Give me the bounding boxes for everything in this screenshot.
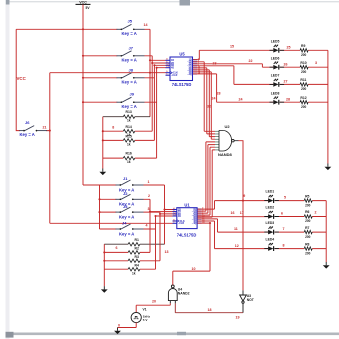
wire key J8 to U5 D2 and R15 [103,65,166,140]
wire net 11 U1 3Q to LED3 [198,219,327,232]
wire U4 output to U1 clock pin [173,223,210,285]
wire net 12 U1 4Q to LED4 [198,221,327,249]
wire net 1 key J1 to U1 D0 and R1 [144,185,173,244]
switch J7 [117,51,145,56]
svg-text:23: 23 [213,61,217,65]
wire R13 row [103,116,150,118]
resistor R16 1k [123,152,135,164]
svg-text:200: 200 [305,219,311,223]
svg-text:J6: J6 [25,120,30,125]
svg-text:3: 3 [315,61,317,65]
switch J8 [117,73,145,78]
svg-text:10: 10 [192,267,196,271]
svg-text:200: 200 [301,105,307,109]
wire U1 ~3Q to U2 input [198,147,216,215]
svg-text:4: 4 [146,224,148,228]
wire top LED cathode rail to ground [327,50,329,163]
svg-text:J1: J1 [123,176,128,181]
wire net 3 key J3 to U1 D2 and R3 [104,212,172,261]
resistor R15 1k [123,134,135,146]
svg-text:4D: 4D [171,67,174,70]
svg-text:17: 17 [240,211,244,215]
wire junctions [49,28,244,262]
svg-text:24: 24 [212,97,216,101]
svg-text:R11: R11 [300,78,306,82]
svg-text:14: 14 [144,23,148,27]
inverter U3 NOT gate [240,290,247,312]
resistor R5 200 [304,194,312,207]
switch J4 [116,224,144,229]
svg-text:LED6: LED6 [271,57,280,61]
svg-text:200: 200 [301,70,307,74]
svg-text:32: 32 [207,105,211,109]
resistor R10 200 [300,61,308,74]
switch J3 [116,207,144,212]
resistor R8 200 [304,242,312,255]
LED LED8 [270,92,285,105]
svg-text:18: 18 [208,308,212,312]
svg-text:NAND8: NAND8 [218,152,233,157]
wire V1 negative to ground [118,323,137,328]
svg-text:LED5: LED5 [271,40,280,44]
svg-text:LED8: LED8 [271,92,280,96]
switch J2 [116,194,144,199]
svg-text:J2: J2 [123,191,128,196]
wire pulldown ground rail top bank [102,117,104,169]
svg-text:12: 12 [235,244,239,248]
wire net 9 U2 output down to U3 NOT input [239,141,244,291]
IC U5 74LS175D quad D flip-flop [166,57,198,81]
svg-text:U5: U5 [179,52,185,57]
svg-text:Key = A: Key = A [119,214,134,219]
svg-text:15: 15 [230,45,234,49]
svg-text:2: 2 [315,211,317,215]
switch J1 [116,180,144,185]
svg-text:U2: U2 [224,124,230,129]
power VCC 5V supply symbol [76,1,91,11]
wire key J7 to U5 D1 and R14 [103,56,166,131]
svg-text:J4: J4 [122,221,127,226]
svg-text:V1: V1 [143,307,147,311]
svg-text:R2: R2 [135,247,139,251]
svg-text:LED2: LED2 [266,206,275,210]
svg-text:J5: J5 [128,19,133,24]
svg-text:19: 19 [236,316,240,320]
wire key J9 to U5 D3 and R16 [103,68,166,158]
svg-text:~4Q: ~4Q [192,222,197,225]
wire pulldown ground rail bottom bank [103,244,105,286]
svg-text:R8: R8 [305,242,309,246]
wire net 4 key J4 to U1 D3 and R4 [104,216,172,269]
svg-text:25: 25 [287,45,291,49]
wire U5 ~4Q to U2 input [193,72,215,139]
svg-text:R3: R3 [135,255,139,259]
wire U5 ~3Q to U2 input [193,70,215,137]
svg-text:VCC: VCC [17,76,27,81]
resistor R4 1k [128,263,140,275]
svg-text:Key = A: Key = A [119,231,134,236]
wire net 24 U5 4Q to LED8 [193,74,328,102]
wire net 23 U5 3Q to LED7 [193,66,328,85]
wire net 20 V1 to U4 input [136,303,170,313]
svg-text:16: 16 [231,211,235,215]
svg-text:R5: R5 [305,194,309,198]
wire net 18 U3 output to U4 input [175,303,243,312]
ground V1 [114,328,121,335]
svg-text:7: 7 [283,227,285,231]
wire U1 ~4Q to U2 input [198,150,216,217]
ground bottom LED rail [323,262,330,269]
svg-text:J8: J8 [129,68,134,73]
svg-text:R9: R9 [301,44,305,48]
nand gate U4 NAND2 [168,285,177,303]
svg-text:J7: J7 [129,46,134,51]
nand gate U2 NAND8 [215,130,239,151]
svg-text:~CLR: ~CLR [178,222,185,225]
wire VCC extension feeding keys J1-J4 [83,185,116,229]
svg-text:LED4: LED4 [266,238,275,242]
IC U1 74LS175D quad D flip-flop [173,208,202,229]
resistor R1 1k [128,238,140,246]
svg-text:1k: 1k [127,160,131,164]
svg-text:R14: R14 [126,125,132,129]
resistor R2 1k [128,247,140,254]
wire net 22 U5 2Q to LED6 [193,64,328,67]
svg-text:9: 9 [243,194,245,198]
svg-text:U1: U1 [184,202,190,207]
svg-text:2: 2 [148,194,150,198]
svg-text:6: 6 [281,212,283,216]
svg-text:21: 21 [43,126,47,130]
svg-text:J3: J3 [123,204,128,209]
switch J6 [19,126,47,131]
svg-text:Key = A: Key = A [122,58,137,63]
node VCC label [17,76,27,81]
svg-text:5: 5 [284,196,286,200]
ground top LED rail [325,164,332,171]
net number labels [43,23,318,327]
resistor R3 1k [128,255,140,262]
resistor R11 200 [300,78,308,91]
svg-text:200: 200 [301,53,307,57]
resistor R7 200 [304,226,312,239]
wire U5 ~1Q to U2 input [193,62,215,132]
resistor R12 200 [300,96,308,109]
LED LED7 [270,74,285,87]
svg-text:LED7: LED7 [271,74,280,78]
LED LED5 [270,40,285,53]
svg-text:NAND2: NAND2 [178,291,190,295]
svg-text:J9: J9 [130,92,135,97]
resistor R9 200 [300,44,308,57]
svg-text:~CLR: ~CLR [171,74,178,77]
svg-text:1: 1 [148,180,150,184]
LED LED1 [264,190,279,203]
svg-text:Key = A: Key = A [122,104,137,109]
svg-text:R15: R15 [126,134,132,138]
switch J5 [117,24,145,29]
svg-text:3: 3 [148,207,150,211]
svg-text:200: 200 [305,235,311,239]
svg-text:24: 24 [239,97,243,101]
wire net 15 U5 1Q to LED5 [193,50,328,59]
svg-text:0: 0 [118,324,120,328]
svg-text:Key = A: Key = A [122,31,137,36]
wire net 17 U1 1Q to LED1 [198,201,327,210]
svg-text:R7: R7 [305,226,309,230]
svg-text:1k: 1k [127,119,131,123]
wire VCC left drop to key J6 [16,29,20,130]
svg-text:13: 13 [165,250,169,254]
svg-text:R6: R6 [305,210,309,214]
svg-text:4D: 4D [178,215,181,218]
svg-text:VCC: VCC [79,1,87,5]
svg-text:R4: R4 [135,263,139,267]
svg-text:74LS175D: 74LS175D [177,232,197,237]
resistor R6 200 [304,210,312,223]
svg-text:8: 8 [283,244,285,248]
resistor R14 1k [123,125,135,137]
svg-text:R16: R16 [126,152,132,156]
svg-text:11: 11 [234,227,238,231]
wire net 2 key J2 to U1 D1 and R2 [104,199,172,252]
svg-text:22: 22 [249,59,253,63]
voltage source V1 1kHz 5V clock [131,312,141,322]
wire R1 row [104,243,164,245]
svg-text:R13: R13 [126,110,132,114]
svg-text:1k: 1k [132,272,136,276]
svg-text:R12: R12 [300,96,306,100]
wire U1 ~1Q to U2 input [198,142,216,211]
svg-text:27: 27 [284,80,288,84]
svg-text:26: 26 [284,62,288,66]
svg-text:LED3: LED3 [266,221,275,225]
svg-text:Key = A: Key = A [122,80,137,85]
LED LED6 [270,57,285,70]
svg-text:LED1: LED1 [266,190,275,194]
svg-text:6: 6 [116,246,118,250]
wire VCC rail from supply down with branches to keys J5 J7 J8 J9 [16,4,117,185]
wire net 14 key J5 to U5 D0 and R13 [145,29,166,116]
wire U5 ~2Q to U2 input [193,68,215,134]
svg-text:28: 28 [286,97,290,101]
ground top pulldown bank [99,169,106,176]
svg-text:1k: 1k [127,142,131,146]
svg-text:200: 200 [305,251,311,255]
svg-text:200: 200 [301,87,307,91]
svg-text:NOT: NOT [247,298,255,302]
svg-text:Key = A: Key = A [20,132,35,137]
svg-text:28: 28 [217,92,221,96]
wire U1 ~2Q to U2 input [198,145,216,214]
svg-text:~4Q: ~4Q [187,73,192,76]
svg-text:R10: R10 [300,61,306,65]
switch J9 [117,97,145,102]
svg-text:20: 20 [152,300,156,304]
svg-text:200: 200 [305,203,311,207]
LED LED4 [264,238,279,251]
wire bottom LED cathode rail to ground [325,201,327,262]
svg-text:R1: R1 [135,238,139,242]
wire net 21 from J6 to U5 CLK line and U1 CLR line [46,73,173,224]
wire net 16 U1 2Q to LED2 [198,216,327,218]
svg-text:8: 8 [112,126,114,130]
LED LED3 [264,221,279,234]
resistor R13 1k [123,110,135,122]
ground bottom pulldown bank [101,286,108,293]
svg-text:74LS175D: 74LS175D [172,82,192,87]
LED LED2 [264,206,279,219]
